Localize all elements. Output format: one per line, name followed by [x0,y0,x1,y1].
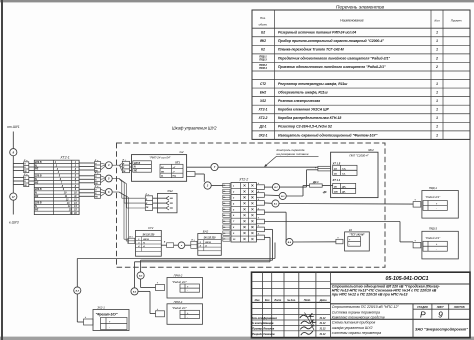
svg-text:Приемник одноволнового линейно: Приемник одноволнового линейного извещат… [278,65,386,69]
svg-text:Примеч.: Примеч. [451,19,463,23]
svg-text:1: 1 [436,31,438,35]
svg-text:Шевцов: Шевцов [263,321,274,325]
svg-text:31.12: 31.12 [320,333,327,336]
svg-text:1: 1 [436,99,438,103]
svg-text:К2: К2 [261,48,265,52]
svg-text:2Б: 2Б [333,186,337,188]
svg-text:1: 1 [436,116,438,120]
svg-text:"Радий 2/1": "Радий 2/1" [425,195,441,199]
svg-text:Кол: Кол [434,19,439,23]
svg-text:Разраб.: Разраб. [252,332,262,336]
svg-text:Кол: Кол [265,299,270,302]
svg-text:ДК+: ДК+ [341,186,347,188]
svg-text:ХТ2-2: ХТ2-2 [258,116,268,120]
svg-text:ЯК2: ЯК2 [367,148,374,152]
svg-text:при НПС №12 и ПС 220/10 кВ при: при НПС №12 и ПС 220/10 кВ при НПС №13 [332,293,408,297]
svg-text:ЗХ2-1: ЗХ2-1 [97,305,105,309]
svg-text:СТАДИЯ: СТАДИЯ [417,306,428,309]
svg-text:PE: PE [35,168,39,171]
svg-text:СТ2: СТ2 [260,82,266,86]
svg-text:"Радий 2/1": "Радий 2/1" [425,236,441,240]
svg-text:1: 1 [436,91,438,95]
svg-text:2А: 2А [333,168,337,170]
svg-text:ЛИСТОВ: ЛИСТОВ [453,306,465,309]
svg-text:к ШУ3: к ШУ3 [9,221,19,225]
svg-text:ЭК 110 220: ЭК 110 220 [142,235,155,237]
svg-text:Подп.: Подп. [304,299,311,302]
svg-text:В-1: В-1 [274,204,277,206]
svg-text:9: 9 [438,310,443,320]
svg-text:ХТ2-2: ХТ2-2 [238,177,248,181]
svg-text:системы охраны периметра: системы охраны периметра [332,331,381,335]
svg-text:1: 1 [436,82,438,86]
svg-text:1: 1 [436,125,438,129]
svg-text:Провер.: Провер. [252,327,263,331]
svg-text:ЗХ2-1: ЗХ2-1 [259,133,268,137]
svg-text:на резервное питание: на резервное питание [277,152,309,156]
svg-text:ЕН2: ЕН2 [260,91,266,95]
svg-text:-ДК: -ДК [322,191,327,194]
svg-text:"ТСГ-142-М": "ТСГ-142-М" [349,233,365,236]
svg-text:Д2-1: Д2-1 [259,125,267,129]
svg-text:ПРД-1: ПРД-1 [429,186,438,190]
svg-text:Розетка электрическая: Розетка электрическая [278,99,320,103]
svg-text:СТ2: СТ2 [148,226,154,230]
svg-text:"Радий 2/1": "Радий 2/1" [172,280,188,284]
svg-text:Строительство ПС 220/10 кВ "НП: Строительство ПС 220/10 кВ "НПС-12" [332,305,400,309]
svg-text:ДК-: ДК- [341,191,346,193]
svg-text:31.12: 31.12 [320,317,327,320]
svg-text:Обогреватель шкафа, R11ш: Обогреватель шкафа, R11ш [278,91,328,95]
svg-text:220 В: 220 В [142,239,149,241]
svg-text:ПРД-3: ПРД-3 [259,58,267,61]
svg-text:ХТ2-1: ХТ2-1 [59,155,69,159]
svg-text:ПКП "С2000-4": ПКП "С2000-4" [349,153,369,157]
svg-text:1: 1 [436,48,438,52]
svg-text:PE: PE [35,209,39,212]
svg-text:ХТ1: ХТ1 [174,160,180,164]
svg-text:2: 2 [435,65,438,69]
svg-text:"Радий 2/1": "Радий 2/1" [172,306,188,310]
svg-text:Н.контр: Н.контр [252,321,263,325]
svg-text:Лист: Лист [273,299,282,302]
svg-text:1: 1 [436,39,438,43]
svg-text:G2: G2 [179,150,183,154]
svg-text:22Б: 22Б [333,191,338,193]
svg-text:220 В: 220 В [204,242,211,244]
svg-text:ХТ 1.1: ХТ 1.1 [332,178,341,182]
svg-text:Коробка клеммная УК2СА ШР: Коробка клеммная УК2СА ШР [278,108,329,112]
svg-text:Резистор С2-33Н-0,5-4,7кОм S2: Резистор С2-33Н-0,5-4,7кОм S2 [278,125,332,129]
svg-text:1: 1 [436,133,438,137]
svg-text:PE: PE [35,195,39,198]
svg-text:PE: PE [134,171,138,173]
svg-text:Яковлев: Яковлев [262,327,274,331]
svg-text:G2: G2 [261,31,265,35]
svg-text:К2: К2 [349,228,353,232]
svg-text:ЭК 115 220: ЭК 115 220 [204,238,217,240]
svg-text:31.12: 31.12 [320,328,327,331]
svg-text:Изм: Изм [255,299,260,302]
svg-text:1Б: 1Б [334,173,337,175]
svg-text:ЗАО "Энергостройпроект": ЗАО "Энергостройпроект" [415,327,468,331]
svg-text:ПРМ-4: ПРМ-4 [259,67,267,70]
svg-text:Семенов: Семенов [263,332,275,336]
svg-text:220 В: 220 В [133,163,140,165]
svg-text:Деревянко: Деревянко [262,316,277,320]
svg-text:ПРМ-4: ПРМ-4 [174,300,183,304]
svg-text:С2-: С2- [342,173,346,175]
svg-text:Наименование: Наименование [340,19,364,23]
svg-text:ПРД-3: ПРД-3 [429,227,438,231]
svg-text:Дата: Дата [319,299,327,302]
svg-text:Коробка распределительная КТН-: Коробка распределительная КТН-18 [278,116,341,120]
svg-text:Поз.: Поз. [260,16,266,20]
svg-text:Нач.отд: Нач.отд [252,316,263,320]
svg-text:Регулятор температуры шкафа, R: Регулятор температуры шкафа, R11ш [278,82,347,86]
svg-text:Извещатель охранный однопозици: Извещатель охранный однопозиционный "Фан… [278,133,378,137]
svg-text:"РИП-24 исп 04": "РИП-24 исп 04" [149,156,171,160]
svg-text:ПРМ-2: ПРМ-2 [174,274,183,278]
svg-text:ЛИСТ: ЛИСТ [436,306,444,309]
svg-text:0В: 0В [161,171,164,173]
svg-text:№ док.: № док. [287,299,296,302]
svg-text:ХТ2-1: ХТ2-1 [258,108,268,112]
svg-text:Д2-1: Д2-1 [312,180,319,184]
svg-text:Система охраны периметра: Система охраны периметра [332,311,380,315]
svg-text:"Фрегат-10У": "Фрегат-10У" [96,313,119,317]
svg-text:ХS2: ХS2 [259,99,266,103]
svg-text:обозн.: обозн. [259,23,268,27]
svg-text:Прибор приемно-контрольный охр: Прибор приемно-контрольный охранно-пожар… [278,39,384,43]
svg-text:31.12: 31.12 [320,322,327,325]
svg-text:Схема питания приборов: Схема питания приборов [332,321,376,325]
svg-text:Резервный источник питания РИП: Резервный источник питания РИП-24 исп.04 [278,31,356,35]
svg-text:05-105-041-ООС1: 05-105-041-ООС1 [386,276,429,282]
svg-text:1: 1 [436,108,438,112]
svg-text:Шкаф управления ШУ2: Шкаф управления ШУ2 [172,125,217,130]
svg-text:2: 2 [435,56,438,60]
svg-text:PE: PE [35,181,39,184]
svg-text:шкафа управления ШУ2: шкафа управления ШУ2 [332,326,373,330]
svg-text:Р: Р [420,310,426,320]
svg-text:ЕН2: ЕН2 [203,230,209,234]
svg-text:ХS2: ХS2 [166,189,173,193]
svg-text:Передатчик одноволнового линей: Передатчик одноволнового линейного извещ… [278,56,390,60]
svg-text:Комплекс технических средств: Комплекс технических средств [332,316,385,320]
svg-text:ЯК2: ЯК2 [259,39,266,43]
svg-text:от ШУ1: от ШУ1 [7,125,20,129]
svg-text:Планка-переходник Trunolo ТСГ-: Планка-переходник Trunolo ТСГ-142-М [278,48,344,52]
svg-text:ПЦ: ПЦ [173,176,177,178]
svg-text:С2+: С2+ [342,168,347,170]
